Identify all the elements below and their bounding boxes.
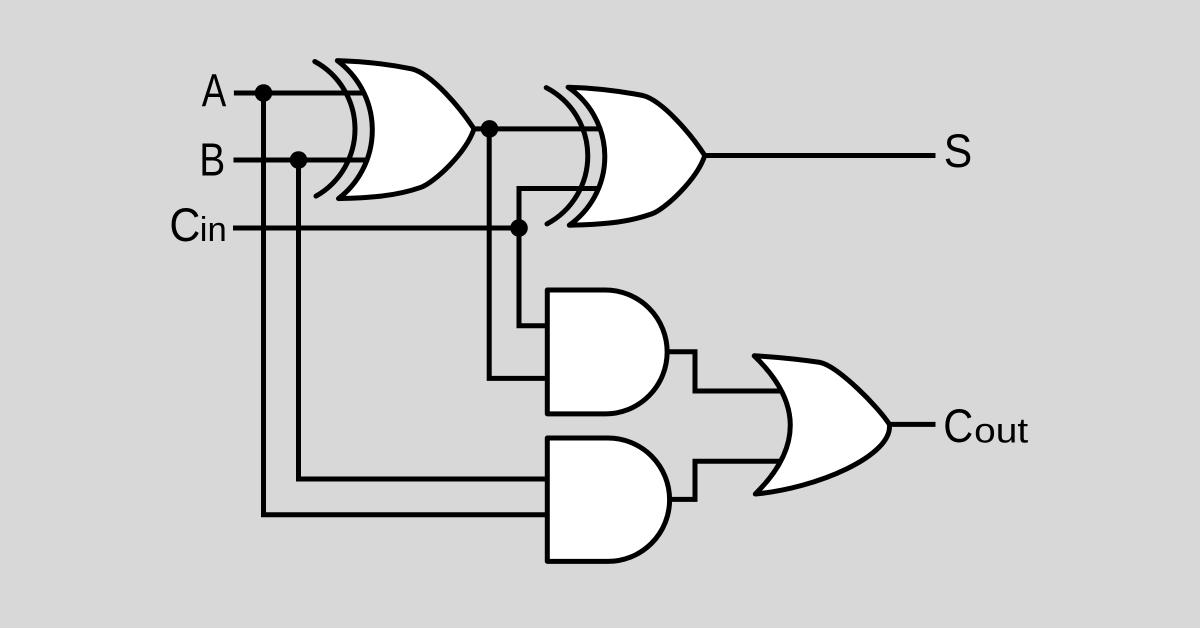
svg-text:S: S xyxy=(944,124,973,177)
wire input B horizontal xyxy=(234,158,371,163)
wire XOR1 output to XOR2 xyxy=(473,126,602,131)
svg-text:C: C xyxy=(943,399,973,452)
wire Cin branch up to XOR2 xyxy=(519,189,600,229)
wire XOR1 output branch down to AND1 xyxy=(489,129,556,379)
wire Cin branch down to AND1 xyxy=(519,226,556,326)
xor gate XOR2 body xyxy=(568,87,705,225)
node A junction xyxy=(255,84,273,102)
wire input Cin horizontal xyxy=(233,226,520,231)
wire A branch down to AND2 xyxy=(264,91,561,515)
and gate AND1 xyxy=(547,290,667,414)
svg-text:B: B xyxy=(199,134,225,186)
xor gate XOR1 body xyxy=(337,61,474,199)
svg-text:out: out xyxy=(974,412,1028,451)
svg-text:in: in xyxy=(200,211,227,249)
wire AND1 output to OR xyxy=(666,352,790,391)
xor gate XOR1 input arc xyxy=(315,62,355,197)
wire OR output to Cout xyxy=(888,422,936,427)
node Cin junction xyxy=(510,219,528,237)
xor gate XOR2 input arc xyxy=(546,88,588,224)
or gate OR1 xyxy=(754,356,889,494)
wire input A horizontal xyxy=(234,91,370,96)
svg-text:A: A xyxy=(202,64,227,116)
and gate AND2 xyxy=(547,438,669,561)
wire B branch down to AND2 xyxy=(299,158,561,479)
node B junction xyxy=(290,151,308,169)
wire XOR2 output to S xyxy=(704,153,936,158)
node XOR1-output junction xyxy=(481,120,499,138)
wire AND2 output to OR xyxy=(667,461,790,499)
svg-text:C: C xyxy=(169,198,200,251)
